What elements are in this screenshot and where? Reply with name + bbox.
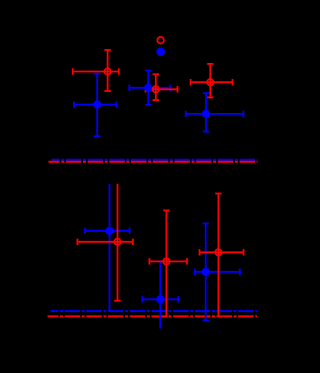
top panel point R1: red error bars — [73, 50, 119, 91]
bottom panel point R3: red open circle marker — [215, 249, 221, 255]
top panel point B1: blue filled circle marker — [93, 100, 101, 108]
top panel point R3: red error bars — [191, 64, 233, 98]
bottom panel point B3: blue error bars — [195, 224, 240, 321]
bottom panel point R2: red open circle marker — [163, 258, 169, 264]
bottom panel point R3: red error bars — [200, 194, 244, 318]
top panel point R3: red open circle marker — [207, 79, 213, 85]
top panel point R1: red open circle marker — [104, 68, 110, 74]
bottom panel point B1: blue filled circle marker — [105, 227, 113, 235]
top panel: red dash-dot reference line — [49, 161, 258, 163]
top panel point B2: blue filled circle marker — [144, 84, 152, 92]
top panel point R2: red error bars — [146, 74, 178, 100]
bottom panel point R1: red error bars — [77, 184, 132, 301]
legend: red open circle marker — [157, 37, 164, 44]
bottom panel point B1: blue error bars — [85, 184, 130, 312]
top panel: blue dash-dot reference line — [52, 159, 258, 161]
bottom panel point R1: red open circle marker — [114, 239, 120, 245]
bottom panel: blue dash-dot reference line — [51, 310, 258, 312]
top panel point B1: blue error bars — [74, 74, 117, 136]
top panel point B3: blue filled circle marker — [202, 110, 210, 118]
bottom panel point R2: red error bars — [149, 210, 187, 317]
bottom panel point B3: blue filled circle marker — [202, 268, 210, 276]
legend: blue filled circle marker — [156, 48, 165, 57]
top panel point R2: red open circle marker — [153, 86, 159, 92]
top panel point B3: blue error bars — [186, 93, 244, 132]
top panel point B2: blue error bars — [129, 71, 170, 105]
bottom panel point B2: blue filled circle marker — [156, 295, 164, 303]
bottom panel point B2: blue error bars — [142, 261, 178, 328]
bottom panel: red dash-dot reference line — [48, 315, 258, 317]
